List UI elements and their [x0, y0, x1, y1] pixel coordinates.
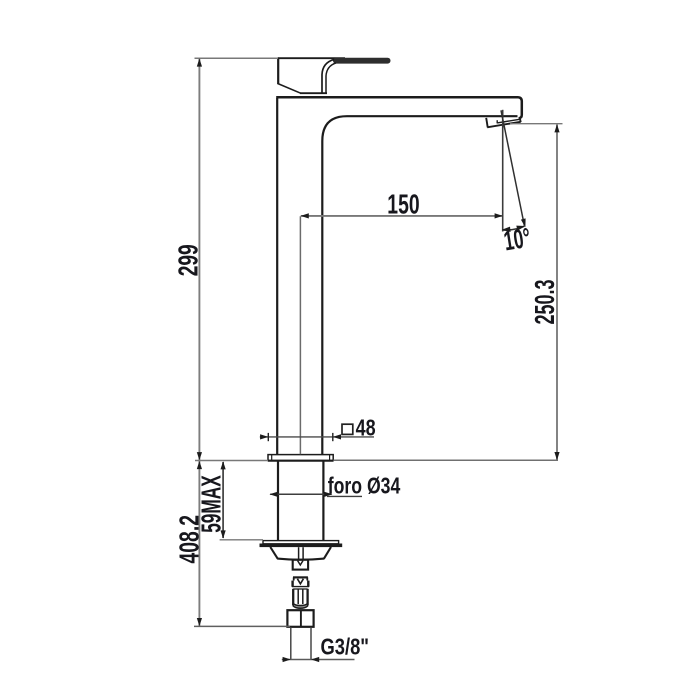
- extension line counter right: [333, 459, 558, 461]
- water jet line: [501, 110, 524, 225]
- center extension line: [299, 216, 301, 454]
- tick square48 left: [267, 433, 269, 441]
- shank right edge: [322, 461, 324, 540]
- supply pipe G3/8: [291, 627, 311, 659]
- arrow square48 right: [333, 434, 341, 439]
- arrow 408.2 top: [197, 461, 202, 469]
- hex nut: [287, 610, 313, 627]
- dim line foro: [270, 493, 331, 495]
- square glyph of 48: [342, 424, 353, 434]
- tick square48 right: [332, 433, 334, 441]
- washer bottom plate: [260, 544, 342, 547]
- svg-text:10°: 10°: [502, 222, 533, 257]
- svg-text:59MAX: 59MAX: [195, 475, 226, 533]
- arrow arc right: [516, 226, 525, 231]
- dim line 150: [301, 215, 503, 217]
- angle arc 10: [503, 226, 525, 230]
- dim line 250.3: [556, 125, 558, 461]
- arrow G3/8 left: [283, 657, 291, 662]
- sleeve gray band: [293, 604, 307, 609]
- extension line 59MAX bottom: [220, 539, 263, 541]
- dim line 59MAX: [222, 462, 224, 538]
- body left edge: [276, 98, 278, 454]
- handle base bottom: [300, 92, 327, 94]
- arrow 150 left: [301, 213, 309, 218]
- extension line top: [195, 57, 279, 59]
- threaded rod end block: [293, 560, 308, 570]
- svg-text:250.3: 250.3: [529, 280, 560, 325]
- arrow square48 left: [260, 434, 268, 439]
- dim line 299 / 408.2: [198, 59, 200, 626]
- svg-text:299: 299: [172, 244, 203, 276]
- hose connector cap: [293, 577, 308, 583]
- leader foro text: [327, 495, 362, 497]
- handle lever bar: [333, 58, 391, 64]
- spout underside and inner right edge: [322, 116, 517, 454]
- flange base plate: [268, 455, 333, 461]
- handle base slant: [277, 83, 300, 93]
- arrow arc left: [502, 227, 511, 232]
- arrow 299 bottom: [197, 452, 202, 460]
- handle neck outer: [322, 59, 334, 93]
- extension line 250.3 top: [510, 123, 563, 125]
- arrow 59MAX top: [221, 461, 226, 469]
- dim line square48: [260, 436, 374, 438]
- svg-text:48: 48: [356, 414, 376, 440]
- labels group: [172, 188, 560, 659]
- aerator: [486, 118, 521, 127]
- svg-text:foro Ø34: foro Ø34: [328, 473, 401, 499]
- arrow 59MAX bottom: [221, 530, 226, 538]
- spout top and right edge: [276, 97, 522, 118]
- extension line counter left: [195, 460, 268, 462]
- arrow jet end: [521, 218, 526, 227]
- arrow 150 right: [495, 213, 503, 218]
- svg-text:G3/8": G3/8": [321, 634, 370, 660]
- hose hex band: [292, 581, 309, 587]
- washer top plate: [263, 541, 339, 544]
- arrow 250.3 bottom: [554, 452, 559, 460]
- arrow 408.2 bottom: [197, 618, 202, 626]
- svg-text:150: 150: [387, 188, 419, 219]
- extension line 408.2 bottom: [194, 625, 290, 627]
- faucet body outline group: [260, 57, 522, 659]
- handle neck inner: [326, 63, 336, 93]
- handle base left edge: [277, 57, 279, 84]
- shank left edge: [277, 461, 279, 540]
- dimension lines group: [194, 58, 563, 662]
- arrow 299 top: [197, 58, 202, 66]
- wire: handle top line: [278, 57, 345, 59]
- arrow G3/8 right: [311, 657, 319, 662]
- arrow 250.3 top: [554, 124, 559, 132]
- jet vertical reference: [502, 110, 504, 232]
- mounting nut: [270, 547, 331, 560]
- arrow foro left: [269, 492, 277, 497]
- arrow foro right: [324, 492, 332, 497]
- dim line G3/8: [282, 659, 355, 661]
- hose crimp sleeve: [293, 589, 307, 605]
